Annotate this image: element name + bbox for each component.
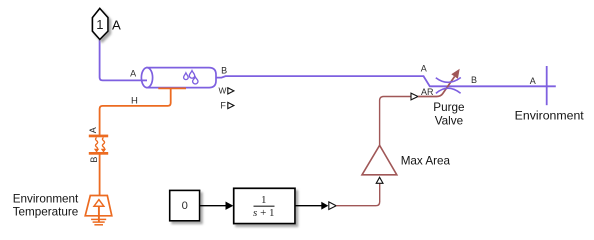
inport 1 (92, 8, 108, 39)
svg-text:Purge: Purge (433, 101, 464, 114)
pipe block (moist air pipe with condensation) (141, 68, 216, 88)
svg-text:A: A (88, 127, 98, 133)
orange overlay on pipe bottom (port H region) (158, 87, 186, 89)
svg-text:s + 1: s + 1 (253, 207, 275, 219)
signal wire from constant to transfer fcn (200, 205, 227, 207)
Max Area saturation triangle block (362, 145, 397, 175)
valve control arrowhead (451, 69, 459, 79)
droplet 2 (large middle) (189, 71, 194, 79)
squiggle right (102, 138, 104, 149)
svg-text:AR: AR (421, 87, 434, 97)
droplet 3 (small lower right) (193, 77, 198, 84)
svg-text:F: F (220, 100, 226, 110)
port F triangle (228, 102, 234, 108)
svg-text:A: A (130, 68, 136, 78)
svg-text:Max Area: Max Area (401, 154, 451, 167)
svg-text:A: A (421, 64, 427, 74)
port W triangle (228, 88, 234, 94)
svg-text:B: B (221, 66, 227, 76)
conductive heat transfer block (88, 127, 108, 162)
top plate (89, 135, 108, 138)
transfer fcn block 1/(s+1) (234, 188, 295, 223)
signal wire from transfer fcn to PS converter (295, 205, 322, 207)
physical signal wire from Max Area up to valve AR (380, 97, 411, 146)
bottom plate (89, 152, 108, 155)
constant 0 block (170, 190, 200, 220)
svg-text:H: H (131, 96, 138, 107)
svg-text:Temperature: Temperature (13, 205, 79, 218)
Max Area input port triangle (376, 177, 383, 183)
squiggle left (96, 138, 98, 149)
svg-text:0: 0 (182, 200, 188, 212)
PS converter port triangle (329, 202, 336, 210)
svg-text:W: W (219, 86, 227, 96)
environment block (vertical bar) (546, 66, 548, 105)
svg-text:1: 1 (261, 194, 267, 206)
trapezoid (85, 196, 112, 216)
svg-text:A: A (530, 76, 536, 86)
wire: purple from pipe B to valve A and on to environment (216, 76, 556, 86)
physical signal wire into valve arrow (418, 77, 455, 97)
wire: orange from pipe H down-left to heat transfer block (100, 88, 171, 135)
svg-text:B: B (89, 157, 99, 163)
purge valve arcs (436, 78, 461, 83)
svg-text:Environment: Environment (13, 193, 79, 206)
droplet 1 (small left) (184, 73, 189, 80)
wire: orange from heat transfer block down to temperature source (99, 155, 101, 196)
wire: purple from inport down to pipe inlet A (100, 39, 147, 80)
arrow up inside (94, 200, 104, 207)
svg-text:1: 1 (96, 17, 103, 32)
temperature source block (Environment Temperature) (85, 196, 112, 223)
svg-text:Valve: Valve (435, 114, 463, 127)
physical signal wire to Max Area input (336, 184, 380, 206)
ground (thermal reference hatch) (91, 219, 106, 224)
svg-text:A: A (112, 18, 121, 33)
svg-text:B: B (471, 75, 477, 85)
valve AR port triangle (411, 93, 418, 100)
svg-text:Environment: Environment (515, 108, 585, 122)
